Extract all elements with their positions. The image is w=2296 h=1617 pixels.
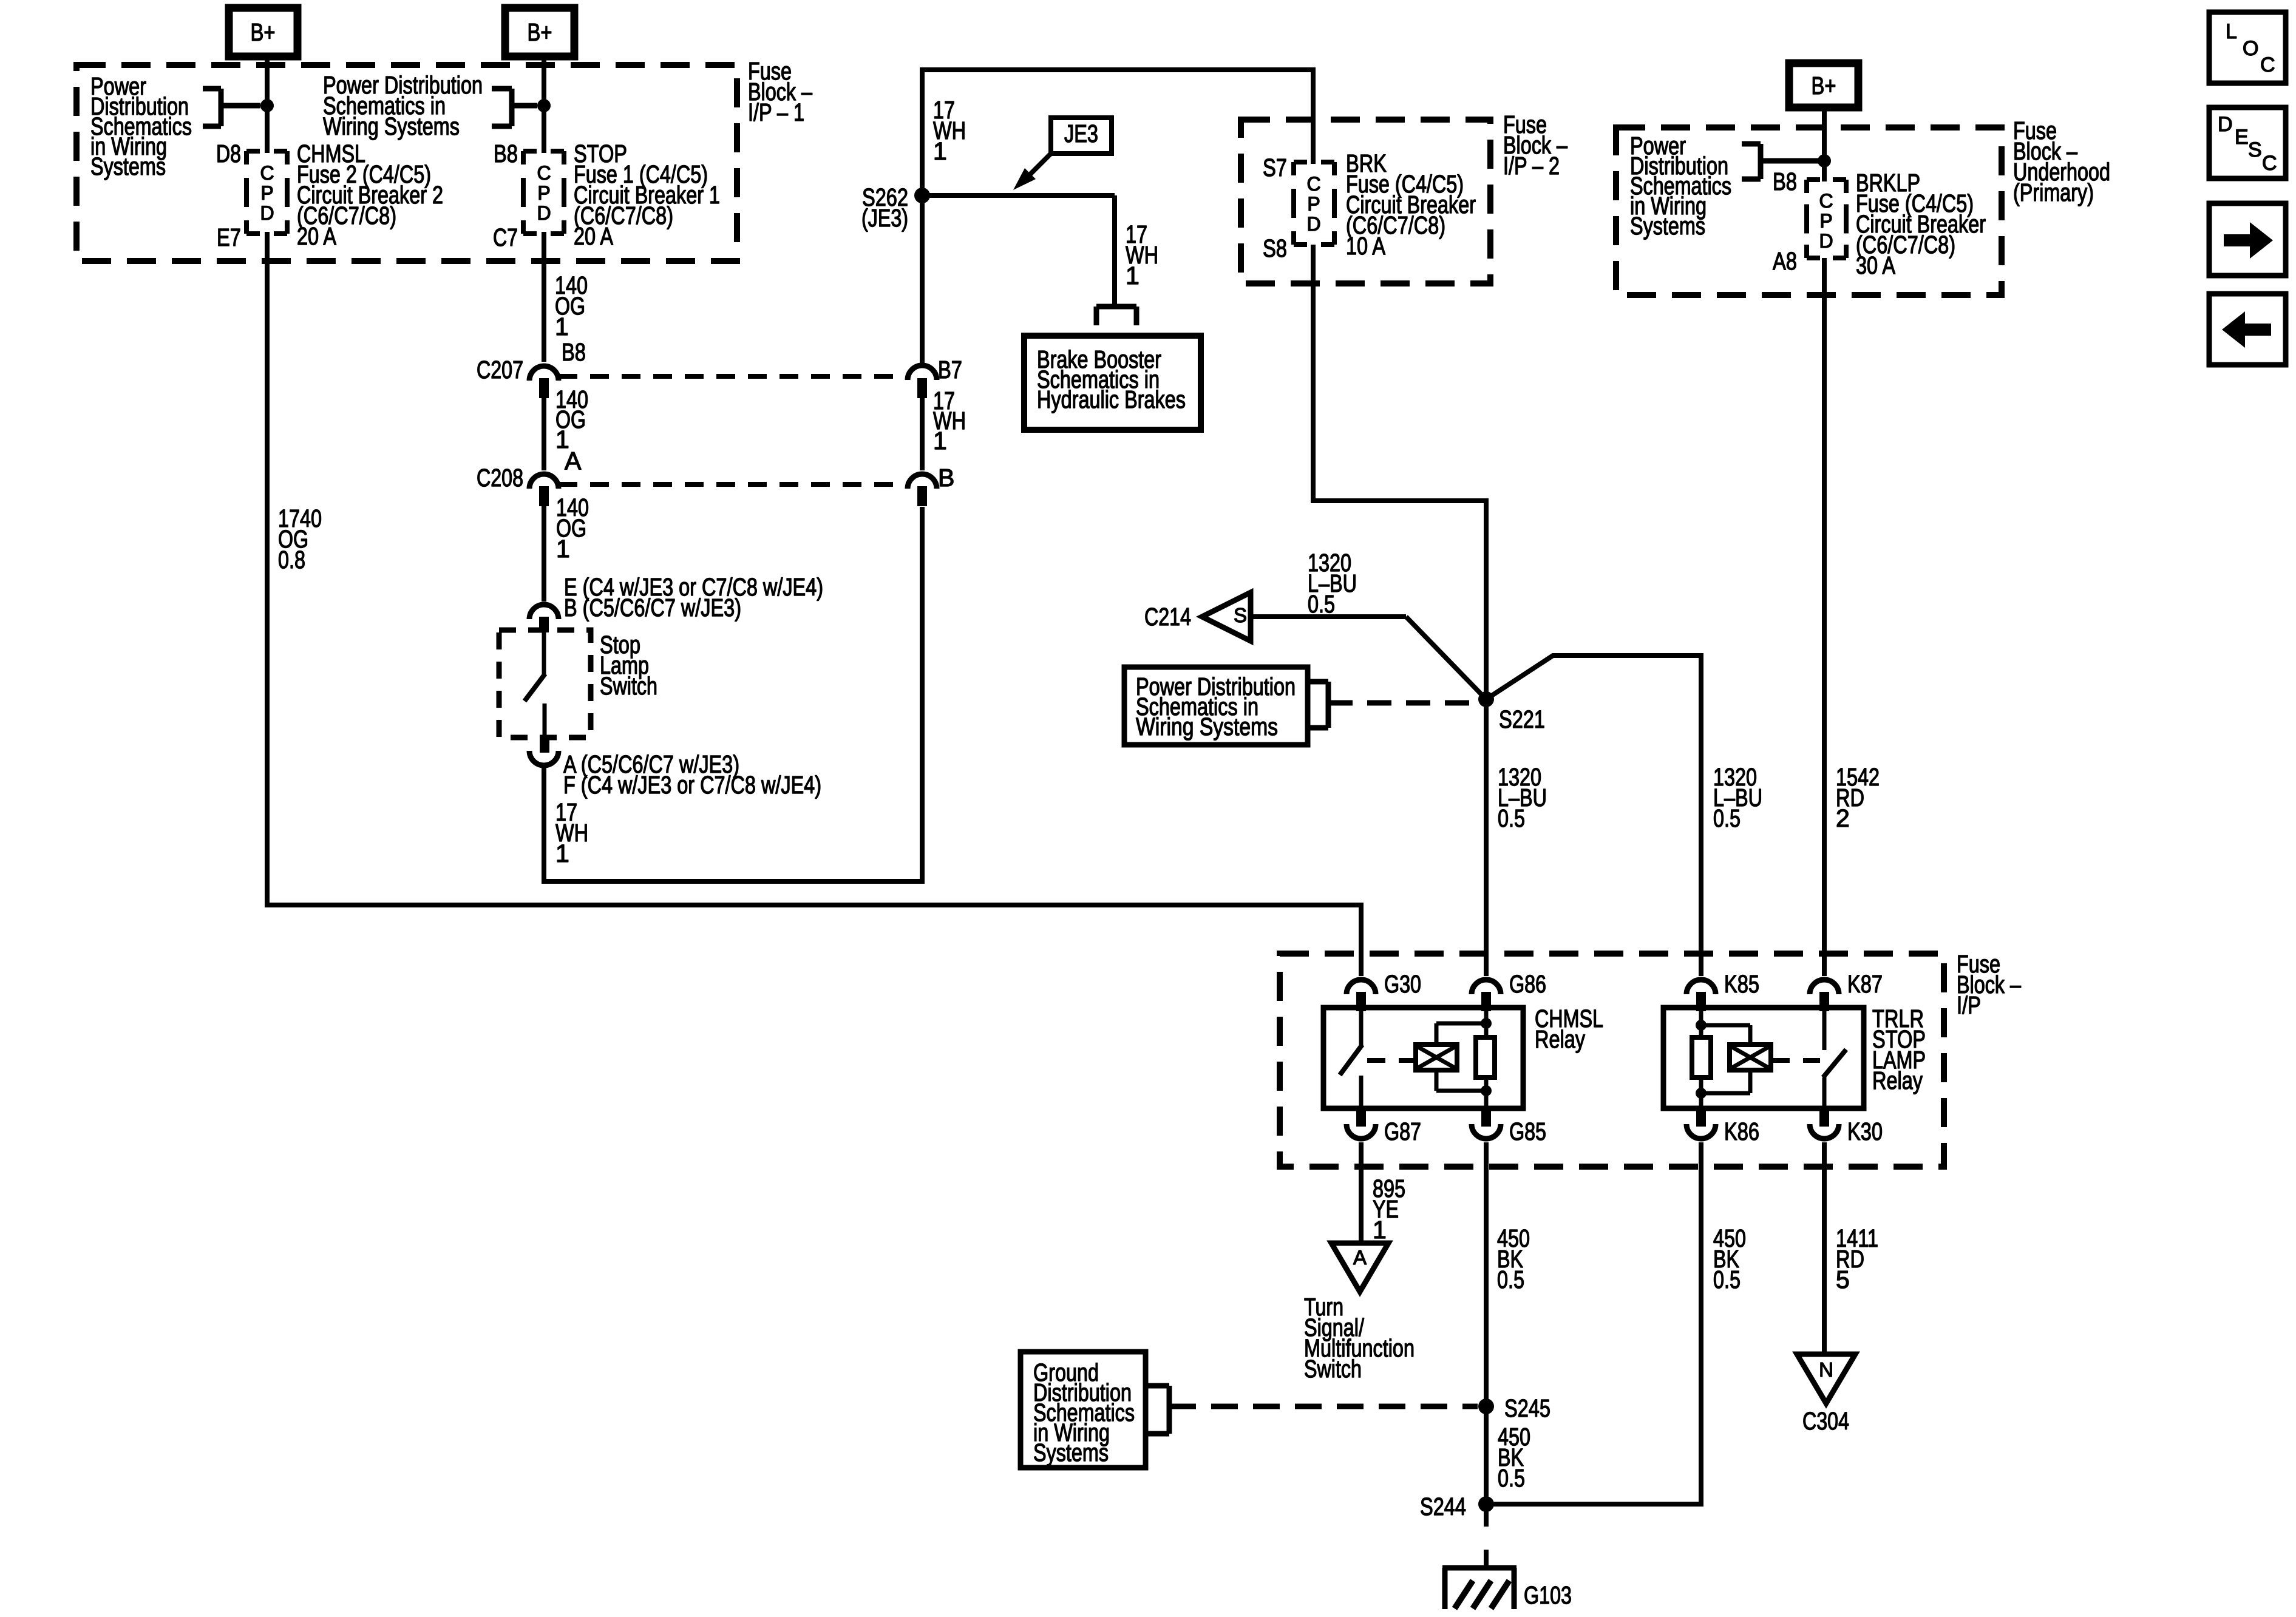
wire C214 to S221 xyxy=(1251,617,1486,699)
svg-text:K30: K30 xyxy=(1847,1117,1883,1145)
wire 450 BK from S245 to S244 xyxy=(1484,1406,1489,1504)
svg-text:K85: K85 xyxy=(1724,970,1759,998)
wire value label 1411 RD 5 xyxy=(1836,1224,1878,1293)
wire 17 WH from switch down/right/up to B connector xyxy=(542,507,925,884)
svg-text:1: 1 xyxy=(933,427,947,455)
wire value label 140 OG 1 (between C207 and C208) xyxy=(555,385,588,453)
svg-text:0.5: 0.5 xyxy=(1713,1266,1741,1293)
svg-text:K87: K87 xyxy=(1847,970,1883,998)
pin S7 label xyxy=(1263,154,1287,181)
svg-text:C: C xyxy=(2260,53,2275,76)
pin label A/F at switch output xyxy=(563,750,821,799)
svg-text:C: C xyxy=(1306,173,1320,195)
svg-text:S8: S8 xyxy=(1263,234,1287,262)
connector C304 label xyxy=(1802,1407,1849,1435)
wire 1320 L-BU S221 down to G86 xyxy=(1484,699,1489,976)
svg-text:P: P xyxy=(1307,193,1320,215)
svg-text:1: 1 xyxy=(933,137,947,165)
off-page triangle N (C304) xyxy=(1797,1354,1855,1403)
svg-text:Wiring Systems: Wiring Systems xyxy=(1136,713,1278,741)
wire B+3 down to BRKLP fuse xyxy=(1822,107,1827,181)
pin G86 label xyxy=(1509,970,1546,998)
svg-text:1: 1 xyxy=(556,535,570,563)
wire value label 895 YE 1 xyxy=(1373,1175,1405,1244)
svg-text:D: D xyxy=(260,202,274,224)
wire value label 1320 L-BU 0.5 (C214 branch) xyxy=(1308,549,1357,618)
pin G30 connector xyxy=(1347,980,1376,1011)
svg-text:D: D xyxy=(2218,113,2233,136)
value label STOP Fuse 1 20 A xyxy=(574,140,720,250)
svg-text:S245: S245 xyxy=(1504,1394,1550,1422)
node junction on B+1 wire xyxy=(260,99,274,112)
svg-text:K86: K86 xyxy=(1724,1117,1759,1145)
pin G87 connector xyxy=(1347,1108,1376,1139)
wire 450 BK from G85 down to S245 xyxy=(1484,1142,1489,1406)
connector B7 half-circle and pin xyxy=(908,365,937,398)
pin B7 label xyxy=(938,356,962,384)
node junction on B+3 wire xyxy=(1818,154,1831,168)
node S244 xyxy=(1478,1496,1494,1512)
fuse STOP Fuse 1 / Circuit Breaker 1 (CPD) box xyxy=(523,151,564,234)
label Fuse Block - I/P - 1 xyxy=(748,57,812,126)
svg-text:1: 1 xyxy=(555,313,569,341)
callout box JE3 xyxy=(1051,118,1112,154)
svg-text:A8: A8 xyxy=(1773,247,1797,275)
legend box previous arrow xyxy=(2209,294,2286,365)
svg-text:G87: G87 xyxy=(1384,1117,1421,1145)
label Fuse Block - Underhood (Primary) xyxy=(2013,117,2110,206)
pin S8 label xyxy=(1263,234,1287,262)
wire value label 1320 L-BU 0.5 (K85 branch) xyxy=(1713,763,1762,832)
connector C214 S triangle xyxy=(1202,592,1251,641)
label Stop Lamp Switch xyxy=(600,631,657,700)
svg-text:D: D xyxy=(1306,213,1320,235)
svg-text:C214: C214 xyxy=(1144,603,1191,631)
connector B half-circle and pin xyxy=(908,474,937,506)
pin K87 connector xyxy=(1810,980,1839,1011)
svg-text:Hydraulic Brakes: Hydraulic Brakes xyxy=(1037,385,1186,413)
svg-text:B (C5/C6/C7 w/JE3): B (C5/C6/C7 w/JE3) xyxy=(564,594,741,622)
svg-text:B+: B+ xyxy=(251,18,276,46)
main 17 WH vertical wire and top run to BRK fuse xyxy=(920,70,1316,364)
svg-text:A: A xyxy=(1353,1246,1367,1269)
label TRLR STOP LAMP Relay xyxy=(1872,1005,1926,1094)
value label CHMSL Fuse 2 20 A xyxy=(297,140,443,250)
wire S262 branch to brake booster xyxy=(922,195,1115,305)
svg-text:N: N xyxy=(1819,1358,1833,1381)
label Turn Signal/Multifunction Switch xyxy=(1304,1293,1415,1383)
svg-text:C304: C304 xyxy=(1802,1407,1849,1435)
svg-text:B+: B+ xyxy=(528,18,552,46)
svg-text:G86: G86 xyxy=(1509,970,1546,998)
connector C207 half-circle and pin xyxy=(529,366,559,398)
wire value label 450 BK 0.5 (S245-S244) xyxy=(1498,1423,1530,1492)
fuse block I/P dashed enclosure (relays) xyxy=(1280,954,1944,1167)
svg-text:B8: B8 xyxy=(562,338,586,366)
svg-text:1: 1 xyxy=(555,839,569,867)
wire 1411 RD from K30 down to C304 xyxy=(1822,1142,1827,1357)
pin A8 label xyxy=(1773,247,1797,275)
label Fuse Block - I/P xyxy=(1957,950,2021,1019)
svg-text:1: 1 xyxy=(1126,262,1140,290)
svg-text:0.5: 0.5 xyxy=(1498,804,1525,832)
value label BRKLP Fuse 30 A xyxy=(1856,169,1986,279)
svg-text:S: S xyxy=(1234,604,1247,626)
svg-text:P: P xyxy=(537,182,550,204)
CHMSL relay coil junction dots xyxy=(1481,1018,1492,1096)
dashed connector line C208 to B xyxy=(559,482,909,487)
wire value label 140 OG 1 (above C207) xyxy=(555,271,588,341)
svg-text:0.5: 0.5 xyxy=(1308,590,1335,618)
svg-text:B8: B8 xyxy=(1773,168,1797,195)
svg-text:S7: S7 xyxy=(1263,154,1287,181)
svg-text:F (C4 w/JE3 or C7/C8 w/JE4): F (C4 w/JE3 or C7/C8 w/JE4) xyxy=(563,771,821,799)
svg-text:E7: E7 xyxy=(217,223,241,251)
note Power Distribution Schematics in Wiring Systems (left) xyxy=(90,72,192,180)
TRLR relay switch contacts xyxy=(1823,1010,1846,1108)
svg-text:P: P xyxy=(1819,210,1832,232)
pin B8 label (STOP fuse) xyxy=(494,140,518,168)
wire stub S244 to ground xyxy=(1484,1511,1489,1567)
note Power Distribution Schematics in Wiring Systems (center) xyxy=(323,71,483,140)
pin label E/B at switch input xyxy=(564,573,823,622)
wire 1740 OG from E7 down and across to G30 xyxy=(265,232,1364,976)
TRLR relay coil junction dots xyxy=(1696,1020,1707,1099)
wire value label 17 WH 1 (brake booster branch) xyxy=(1126,220,1158,290)
note box Brake Booster Schematics in Hydraulic Brakes xyxy=(1024,336,1201,430)
svg-text:10 A: 10 A xyxy=(1346,232,1386,260)
svg-text:Relay: Relay xyxy=(1872,1066,1923,1094)
wire value label 17 WH 1 (top) xyxy=(933,96,966,165)
legend box next arrow xyxy=(2209,203,2286,276)
wire value label 17 WH 1 (between B7 and B) xyxy=(933,387,966,455)
power symbol B+ feed 3 (BRKLP fuse) xyxy=(1789,63,1858,107)
CHMSL relay actuator dashed link xyxy=(1367,1058,1416,1063)
wire S221 up-right to K85 column xyxy=(1486,656,1703,976)
svg-text:S244: S244 xyxy=(1420,1493,1466,1520)
bracket pointer from note box to S221 xyxy=(1308,682,1478,728)
wire value label 450 BK 0.5 (G85) xyxy=(1497,1224,1530,1293)
connector C208 half-circle and pin xyxy=(529,474,559,506)
wire 450 BK from K86 down to S244 xyxy=(1486,1142,1703,1507)
svg-text:C: C xyxy=(537,162,551,184)
stop lamp switch dashed box xyxy=(499,630,591,737)
wire value label 450 BK 0.5 (K86) xyxy=(1713,1224,1746,1293)
svg-text:S: S xyxy=(2248,138,2262,161)
svg-text:A: A xyxy=(565,447,582,475)
fuse BRK Fuse / Circuit Breaker (CPD) box xyxy=(1294,162,1334,245)
wire 895 YE from G87 to turn signal switch xyxy=(1359,1142,1364,1244)
CHMSL relay resistor xyxy=(1476,1010,1495,1108)
wire value label 140 OG 1 (below C208) xyxy=(556,493,589,563)
svg-text:D: D xyxy=(1819,230,1833,252)
bracket pointer from ground note to S245 xyxy=(1146,1386,1478,1434)
svg-text:P: P xyxy=(260,182,273,204)
bracket pointer to node below B+ 3 xyxy=(1742,144,1822,179)
bracket pointer to node below B+ 2 xyxy=(492,89,537,126)
svg-text:0.8: 0.8 xyxy=(278,546,305,574)
svg-text:(Primary): (Primary) xyxy=(2013,178,2094,206)
svg-text:20 A: 20 A xyxy=(297,222,337,250)
pin B8 label at C207 xyxy=(562,338,586,366)
svg-text:Switch: Switch xyxy=(1304,1355,1362,1383)
svg-text:30 A: 30 A xyxy=(1856,251,1896,279)
wire 140 OG from C208 to stop lamp switch xyxy=(542,506,546,602)
pin G86 connector xyxy=(1472,980,1501,1011)
node S221 xyxy=(1478,691,1494,707)
TRLR relay coil xyxy=(1730,1045,1771,1070)
component terminal bracket at brake booster xyxy=(1096,307,1136,325)
value label BRK Fuse 10 A xyxy=(1346,149,1476,260)
note box Power Distribution Schematics in Wiring Systems (S221) xyxy=(1124,667,1308,745)
pin K86 label xyxy=(1724,1117,1759,1145)
svg-text:B+: B+ xyxy=(1812,72,1836,100)
node junction on B+2 wire xyxy=(537,99,551,112)
TRLR relay actuator dashed link xyxy=(1771,1058,1820,1063)
TRLR relay coil wiring xyxy=(1701,1025,1750,1093)
wire B+1 down to CHMSL fuse xyxy=(265,56,270,153)
fuse block underhood dashed enclosure xyxy=(1616,127,2002,295)
wire value label 17 WH 1 (below switch) xyxy=(555,798,588,867)
node S244 label xyxy=(1420,1493,1466,1520)
svg-text:C7: C7 xyxy=(493,223,518,251)
svg-text:S221: S221 xyxy=(1499,705,1545,733)
svg-text:20 A: 20 A xyxy=(574,222,614,250)
pin D8 label xyxy=(216,140,241,168)
CHMSL relay switch contacts xyxy=(1340,1010,1362,1108)
pin B8 label (BRKLP) xyxy=(1773,168,1797,195)
wire 1542 RD from BRKLP fuse down to K87 xyxy=(1822,258,1827,976)
svg-text:G30: G30 xyxy=(1384,970,1421,998)
svg-text:0.5: 0.5 xyxy=(1497,1266,1524,1293)
svg-text:Systems: Systems xyxy=(1630,212,1705,240)
svg-text:C: C xyxy=(2262,152,2277,175)
wire value label 1740 OG 0.8 xyxy=(278,504,322,574)
note box Ground Distribution Schematics in Wiring Systems xyxy=(1021,1352,1146,1468)
dashed connector line C207 to B7 xyxy=(559,374,909,379)
off-page triangle A (turn signal) xyxy=(1331,1243,1388,1292)
connector C207 label xyxy=(477,356,523,384)
svg-text:Systems: Systems xyxy=(90,152,166,180)
bracket pointer to node below B+ 1 xyxy=(203,89,260,126)
node S245 xyxy=(1478,1398,1494,1414)
wire 1320 L-BU from S8 down to S221 xyxy=(1311,245,1489,699)
svg-text:Relay: Relay xyxy=(1535,1025,1585,1053)
pin E7 label xyxy=(217,223,241,251)
wire B+2 down to STOP fuse xyxy=(542,56,546,153)
svg-text:D8: D8 xyxy=(216,140,241,168)
svg-text:G103: G103 xyxy=(1524,1581,1572,1609)
legend box LOC xyxy=(2209,12,2286,83)
svg-text:B7: B7 xyxy=(938,356,962,384)
wire 140 OG from C7 to C207 xyxy=(542,232,546,362)
svg-text:1: 1 xyxy=(1373,1216,1387,1244)
svg-text:I/P – 1: I/P – 1 xyxy=(748,98,804,126)
label CHMSL Relay xyxy=(1535,1005,1603,1053)
svg-text:D: D xyxy=(537,202,551,224)
CHMSL relay coil xyxy=(1416,1045,1457,1070)
svg-text:G85: G85 xyxy=(1509,1117,1546,1145)
TRLR relay resistor xyxy=(1692,1010,1711,1108)
svg-text:C208: C208 xyxy=(477,464,523,492)
svg-text:(JE3): (JE3) xyxy=(861,204,908,232)
pin K30 connector xyxy=(1810,1108,1839,1139)
pin C7 label xyxy=(493,223,518,251)
node S262 (JE3) xyxy=(914,188,930,203)
svg-text:JE3: JE3 xyxy=(1064,120,1098,147)
svg-text:I/P: I/P xyxy=(1957,991,1981,1019)
relay TRLR STOP LAMP Relay box xyxy=(1663,1008,1864,1108)
svg-text:E: E xyxy=(2235,126,2249,149)
connector C208 label xyxy=(477,464,523,492)
relay CHMSL Relay box xyxy=(1323,1008,1523,1108)
svg-text:2: 2 xyxy=(1836,804,1850,832)
svg-text:I/P – 2: I/P – 2 xyxy=(1503,152,1560,180)
wire 17 WH between B7 and B xyxy=(920,398,925,470)
svg-text:O: O xyxy=(2243,37,2258,60)
svg-text:0.5: 0.5 xyxy=(1713,804,1741,832)
ground G103 label xyxy=(1524,1581,1572,1609)
stop lamp switch contacts and blade xyxy=(525,632,545,736)
pin K85 label xyxy=(1724,970,1759,998)
svg-text:C: C xyxy=(1819,190,1833,212)
svg-text:5: 5 xyxy=(1836,1266,1850,1293)
pin K87 label xyxy=(1847,970,1883,998)
fuse block I/P - 1 dashed enclosure xyxy=(76,65,737,261)
pin G87 label xyxy=(1384,1117,1421,1145)
pin K30 label xyxy=(1847,1117,1883,1145)
ground symbol G103 xyxy=(1442,1568,1517,1609)
power symbol B+ feed 1 (CHMSL fuse) xyxy=(229,8,297,56)
svg-text:Systems: Systems xyxy=(1033,1439,1109,1466)
svg-text:B: B xyxy=(938,464,954,492)
svg-text:Wiring Systems: Wiring Systems xyxy=(323,112,460,140)
svg-text:B8: B8 xyxy=(494,140,518,168)
wire value label 1542 RD 2 xyxy=(1836,763,1880,832)
pin B label xyxy=(938,464,954,492)
pin A label at C208 xyxy=(565,447,582,475)
node S221 label xyxy=(1499,705,1545,733)
svg-text:C: C xyxy=(260,162,274,184)
label Fuse Block - I/P - 2 xyxy=(1503,110,1567,180)
fuse block I/P - 2 dashed enclosure xyxy=(1241,120,1490,283)
pin G85 connector xyxy=(1472,1108,1501,1139)
wire value label 1320 L-BU 0.5 (G86 branch) xyxy=(1498,763,1547,832)
svg-text:C207: C207 xyxy=(477,356,523,384)
pin K86 connector xyxy=(1686,1108,1716,1139)
power symbol B+ feed 2 (STOP fuse) xyxy=(505,8,574,56)
connector C214 label xyxy=(1144,603,1191,631)
node S262 label xyxy=(861,183,908,232)
switch input connector half-circle and pin xyxy=(529,605,559,632)
switch output pin and connector xyxy=(529,736,559,765)
arrow from JE3 callout xyxy=(1013,152,1052,190)
svg-text:Switch: Switch xyxy=(600,672,657,700)
pin K85 connector xyxy=(1686,980,1716,1011)
pin G30 label xyxy=(1384,970,1421,998)
fuse CHMSL Fuse 2 / Circuit Breaker 2 (CPD) box xyxy=(246,151,287,234)
pin G85 label xyxy=(1509,1117,1546,1145)
note Power Distribution Schematics in Wiring Systems (right) xyxy=(1630,132,1731,240)
legend box DESC xyxy=(2209,107,2286,178)
svg-text:L: L xyxy=(2226,20,2237,43)
CHMSL relay coil wiring xyxy=(1436,1023,1486,1091)
wire 140 OG from C207 to C208 xyxy=(542,398,546,470)
svg-text:0.5: 0.5 xyxy=(1498,1464,1525,1492)
node S245 label xyxy=(1504,1394,1550,1422)
fuse BRKLP Fuse / Circuit Breaker (CPD) box xyxy=(1807,180,1846,258)
